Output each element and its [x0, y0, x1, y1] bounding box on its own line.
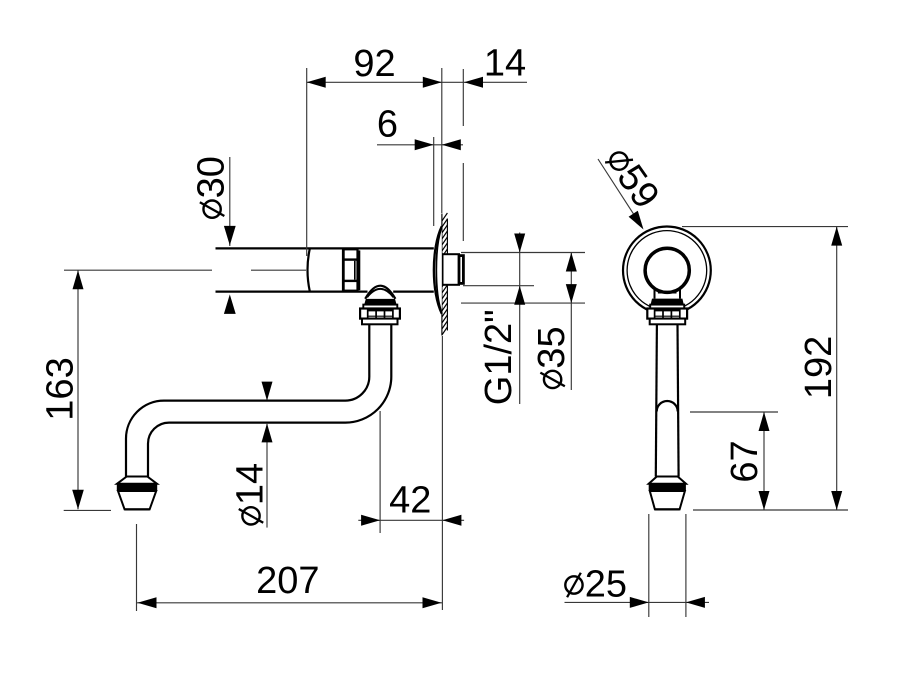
- svg-text:6: 6: [377, 104, 398, 146]
- svg-text:14: 14: [484, 43, 526, 85]
- svg-text:35: 35: [531, 326, 573, 368]
- svg-text:42: 42: [389, 480, 431, 522]
- svg-text:25: 25: [585, 563, 627, 605]
- svg-text:G1/2": G1/2": [478, 309, 520, 405]
- svg-text:14: 14: [229, 463, 271, 505]
- svg-text:67: 67: [724, 440, 766, 482]
- svg-text:30: 30: [191, 156, 233, 198]
- svg-text:163: 163: [39, 357, 81, 420]
- svg-text:192: 192: [798, 336, 840, 399]
- svg-text:207: 207: [256, 560, 319, 602]
- svg-text:92: 92: [353, 43, 395, 85]
